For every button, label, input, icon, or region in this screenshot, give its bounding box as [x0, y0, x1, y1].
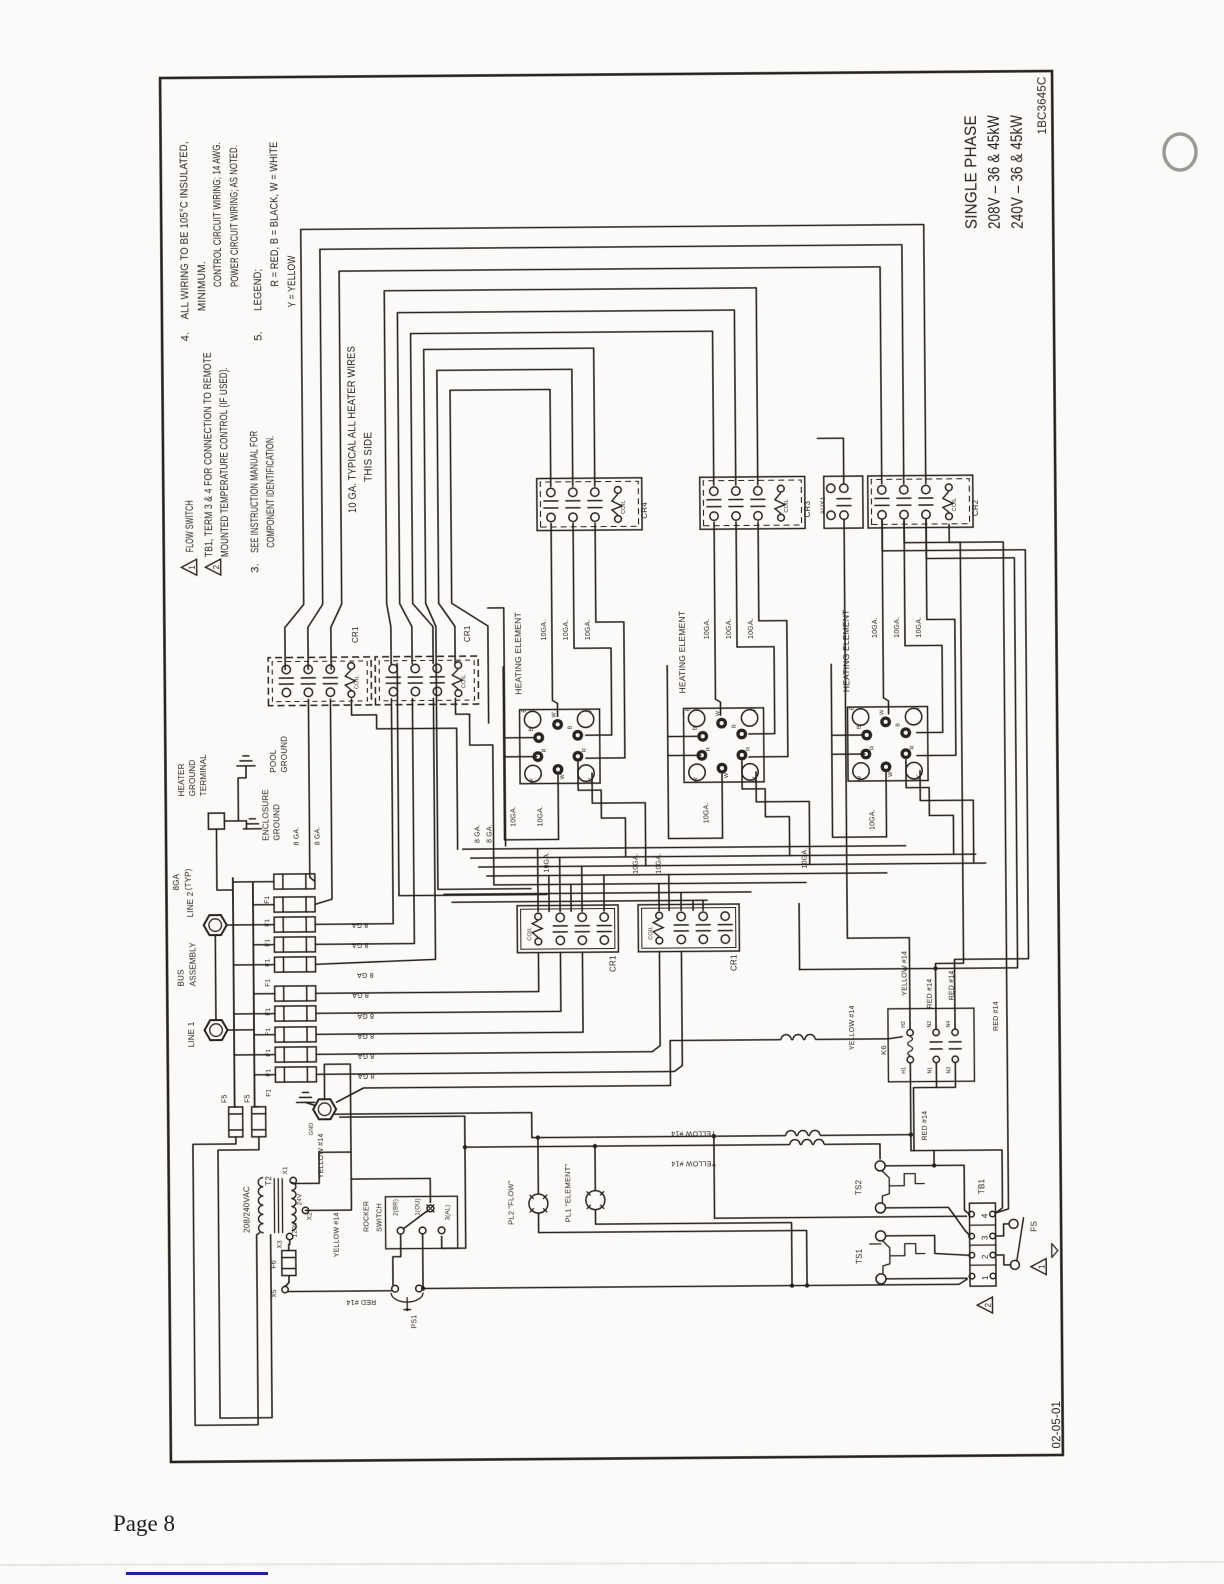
svg-text:ALL WIRING TO BE 105°C INSULAT: ALL WIRING TO BE 105°C INSULATED, — [178, 141, 191, 319]
wire — [718, 924, 732, 926]
terminal X5 — [282, 1286, 288, 1292]
TB1 divider — [970, 1264, 996, 1266]
svg-text:8 GA: 8 GA — [357, 971, 374, 978]
svg-text:W: W — [724, 772, 730, 778]
terminal X3 — [286, 1233, 292, 1239]
wire — [289, 1240, 290, 1251]
wire — [996, 1224, 1009, 1236]
wire — [282, 1256, 296, 1258]
wire — [798, 904, 801, 970]
svg-text:GROUND: GROUND — [280, 736, 289, 773]
TB1 terminal 4 right — [990, 1211, 996, 1217]
wire 10GA element return — [831, 664, 886, 837]
svg-text:8 GA: 8 GA — [352, 991, 369, 998]
wire — [305, 937, 307, 952]
wire — [283, 986, 285, 1001]
svg-text:208V – 36 & 45kW: 208V – 36 & 45kW — [985, 115, 1004, 229]
wire 10GA to element — [584, 523, 625, 758]
wire — [234, 1013, 275, 1015]
svg-text:ROCKER: ROCKER — [363, 1201, 370, 1232]
wire — [603, 875, 605, 911]
svg-text:1: 1 — [188, 565, 197, 570]
svg-text:8GA: 8GA — [172, 873, 181, 890]
svg-text:PL1 "ELEMENT": PL1 "ELEMENT" — [563, 1163, 572, 1222]
wire — [397, 663, 547, 896]
heater wire loop — [397, 310, 737, 664]
wire 10GA element return — [667, 665, 722, 838]
wire — [351, 1178, 430, 1203]
wire yellow B — [441, 1144, 881, 1248]
wire — [323, 677, 337, 679]
svg-text:R: R — [870, 746, 876, 750]
wire — [422, 1235, 424, 1287]
TB1 divider — [970, 1224, 996, 1226]
wire — [229, 1113, 243, 1115]
wire — [674, 924, 688, 926]
wire 8GA — [351, 698, 457, 850]
wire — [406, 1298, 408, 1310]
svg-text:POOL: POOL — [269, 749, 278, 772]
wire 10GA to element — [882, 521, 889, 714]
wire — [300, 1096, 312, 1098]
svg-text:PS1: PS1 — [411, 1315, 418, 1329]
wire — [996, 1255, 1011, 1265]
wire — [285, 1276, 289, 1287]
svg-text:ASSEMBLY: ASSEMBLY — [188, 942, 197, 987]
relay CR1 (coil bank B) — [638, 904, 739, 952]
svg-text:02-05-01: 02-05-01 — [1051, 1401, 1063, 1449]
svg-text:8 GA: 8 GA — [357, 1052, 374, 1059]
rocker pin 2(BR) — [397, 1227, 404, 1234]
wire — [283, 1047, 285, 1062]
wire — [882, 518, 1029, 1029]
svg-text:K6: K6 — [879, 1045, 888, 1055]
svg-text:W: W — [857, 775, 863, 781]
svg-text:CR3: CR3 — [803, 500, 812, 517]
svg-text:R: R — [916, 705, 922, 709]
wire — [544, 500, 558, 502]
svg-text:B: B — [529, 728, 535, 732]
wire — [588, 500, 602, 502]
wire 8GA — [308, 699, 314, 881]
wire — [323, 683, 337, 685]
wire — [255, 1106, 259, 1108]
svg-text:4.: 4. — [180, 332, 192, 342]
svg-text:RED #14: RED #14 — [922, 1111, 929, 1141]
wire — [282, 874, 284, 889]
svg-text:F5: F5 — [222, 1094, 229, 1103]
wire — [538, 1211, 807, 1285]
svg-text:5.: 5. — [253, 331, 265, 341]
bus wire — [463, 846, 906, 849]
wire — [253, 904, 274, 906]
wire — [668, 735, 699, 737]
wire — [674, 930, 688, 932]
svg-text:H1: H1 — [901, 1067, 907, 1074]
wire — [282, 937, 284, 952]
wire — [406, 1308, 409, 1311]
wire — [279, 683, 293, 685]
wire yellow — [336, 1037, 902, 1102]
svg-text:CR1: CR1 — [729, 954, 738, 971]
terminal LINE 1 — [204, 1020, 227, 1040]
svg-text:208/240VAC: 208/240VAC — [242, 1186, 251, 1233]
svg-text:GND: GND — [309, 1123, 315, 1136]
svg-text:B: B — [686, 707, 692, 711]
wire — [315, 952, 560, 1013]
svg-text:TS2: TS2 — [854, 1179, 863, 1195]
wire — [282, 1267, 296, 1269]
wire — [283, 1006, 285, 1021]
svg-text:AUX1: AUX1 — [820, 496, 827, 514]
wire 10GA — [920, 770, 974, 863]
wire — [214, 935, 217, 1019]
svg-text:10GA.: 10GA. — [916, 617, 923, 638]
svg-text:X5: X5 — [271, 1289, 278, 1298]
wire — [243, 755, 249, 757]
svg-text:8 GA: 8 GA — [357, 1012, 374, 1019]
svg-text:10 GA. TYPICAL ALL HEATER WIRE: 10 GA. TYPICAL ALL HEATER WIRES — [346, 346, 359, 513]
svg-text:2: 2 — [981, 1254, 990, 1259]
drawing border frame — [160, 71, 1063, 1462]
svg-text:B: B — [693, 726, 699, 730]
wire — [279, 677, 293, 679]
svg-text:MINIMUM.: MINIMUM. — [196, 261, 208, 311]
wire — [313, 699, 393, 925]
svg-text:R: R — [752, 707, 758, 711]
wire supply — [218, 1137, 272, 1418]
svg-text:W: W — [588, 777, 594, 783]
svg-text:COIL: COIL — [527, 927, 533, 941]
wire — [844, 519, 910, 1029]
wire — [875, 497, 889, 499]
svg-text:B: B — [857, 725, 863, 729]
flow switch FS — [1009, 1219, 1018, 1228]
svg-text:F1: F1 — [265, 979, 272, 987]
fuse F1 — [274, 917, 315, 932]
transformer T2 — [258, 1178, 263, 1233]
wire — [537, 849, 539, 912]
wire — [751, 498, 765, 500]
wire — [597, 925, 611, 927]
wire — [315, 953, 538, 994]
wire — [229, 1129, 243, 1131]
terminal LINE 2 — [204, 915, 227, 935]
heater wire loop — [411, 331, 716, 663]
heater wire loop — [450, 389, 553, 723]
wire — [283, 1027, 285, 1042]
wire — [283, 1067, 285, 1082]
wire — [696, 924, 710, 926]
svg-text:(TYP): (TYP) — [184, 868, 193, 890]
wire — [313, 699, 414, 945]
fuse F5 — [252, 1107, 266, 1137]
svg-text:3(AL): 3(AL) — [445, 1205, 451, 1221]
TB1 terminal 1 left — [969, 1273, 975, 1279]
wire — [488, 608, 506, 846]
wire red — [422, 1279, 967, 1288]
wire — [559, 857, 561, 911]
svg-text:COIL: COIL — [461, 674, 467, 688]
wire — [237, 765, 255, 767]
svg-text:10GA.: 10GA. — [802, 848, 809, 869]
wire — [897, 504, 911, 506]
wire — [252, 1113, 266, 1115]
FS blade — [1017, 1218, 1024, 1261]
svg-text:10GA.: 10GA. — [869, 809, 876, 830]
wire — [301, 683, 315, 685]
svg-text:N1: N1 — [927, 1067, 933, 1074]
svg-text:W: W — [552, 711, 558, 717]
wire 10GA — [756, 771, 810, 864]
svg-text:COIL: COIL — [621, 500, 627, 514]
bus bar — [253, 883, 255, 1107]
svg-text:N3: N3 — [946, 1067, 952, 1074]
wire — [282, 957, 284, 972]
svg-text:MOUNTED TEMPERATURE CONTROL (I: MOUNTED TEMPERATURE CONTROL (IF USED). — [218, 367, 231, 557]
wire 10GA — [742, 761, 790, 856]
wire — [557, 775, 560, 839]
svg-text:HEATING ELEMENT: HEATING ELEMENT — [677, 611, 688, 694]
svg-text:N4: N4 — [946, 1021, 952, 1028]
svg-text:H2: H2 — [901, 1021, 907, 1028]
fuse F1 — [274, 874, 315, 889]
K6 N2 — [933, 1029, 939, 1035]
wire — [566, 500, 580, 502]
wire — [751, 505, 765, 507]
bus wire — [444, 892, 751, 894]
wire — [949, 1041, 961, 1043]
wire — [919, 504, 933, 506]
rocker switch — [385, 1196, 457, 1249]
wire — [932, 524, 964, 1028]
svg-text:YELLOW #14: YELLOW #14 — [901, 951, 908, 996]
wire — [393, 1235, 401, 1285]
wire yellow — [340, 1116, 465, 1148]
svg-text:3.: 3. — [249, 563, 261, 573]
TB1 terminal 1 right — [990, 1273, 996, 1279]
svg-text:HEATING ELEMENT: HEATING ELEMENT — [513, 612, 524, 695]
svg-text:Y = YELLOW: Y = YELLOW — [286, 255, 298, 307]
wire — [305, 897, 307, 912]
thermostat TS2 — [875, 1161, 885, 1171]
heater wire loop — [305, 245, 905, 670]
wire — [408, 676, 422, 678]
svg-text:TS1: TS1 — [855, 1248, 864, 1264]
svg-text:FLOW SWITCH: FLOW SWITCH — [184, 500, 196, 552]
svg-text:B: B — [896, 723, 902, 727]
svg-text:10GA.: 10GA. — [703, 802, 710, 823]
wire — [430, 676, 444, 678]
relay K6 — [888, 1008, 975, 1082]
svg-text:TERMINAL: TERMINAL — [199, 754, 208, 796]
wire — [581, 866, 583, 911]
svg-text:3: 3 — [981, 1235, 990, 1240]
wire — [936, 1063, 955, 1087]
wire — [832, 753, 865, 755]
wire — [832, 734, 863, 736]
wire supply — [193, 1137, 261, 1426]
wire 10GA to element — [904, 520, 943, 732]
wire — [544, 507, 558, 509]
wire — [595, 1209, 792, 1286]
wire — [282, 897, 284, 912]
wire — [315, 952, 583, 1034]
wire 10GA to element — [736, 522, 775, 734]
wire — [910, 1063, 934, 1165]
wire — [226, 924, 233, 926]
wire — [301, 677, 315, 679]
wire — [233, 881, 274, 883]
wire — [702, 900, 704, 910]
wire — [886, 1235, 968, 1256]
wire — [277, 1179, 279, 1233]
wire — [796, 518, 1018, 970]
scan artifact line — [0, 1562, 1224, 1565]
svg-text:TB1, TERM 3 & 4 FOR CONNECTION: TB1, TERM 3 & 4 FOR CONNECTION TO REMOTE — [202, 352, 216, 557]
svg-text:CR4: CR4 — [640, 502, 649, 519]
heater ground terminal — [208, 813, 224, 829]
TB1 terminal 3 right — [990, 1233, 996, 1239]
svg-text:X3: X3 — [277, 1240, 284, 1249]
svg-text:10GA.: 10GA. — [585, 619, 592, 640]
wire — [224, 821, 246, 829]
wire — [930, 1048, 942, 1050]
blue mark — [126, 1572, 268, 1575]
svg-text:1(OU): 1(OU) — [415, 1198, 421, 1215]
wire — [216, 829, 232, 890]
wire 10GA to element — [551, 523, 558, 716]
wire — [837, 498, 851, 500]
svg-text:COIL: COIL — [648, 926, 654, 940]
svg-text:W: W — [752, 776, 758, 782]
note triangle 1 flow switch — [181, 559, 196, 575]
svg-text:1: 1 — [1037, 1264, 1046, 1269]
note triangle 2 — [205, 559, 220, 575]
svg-text:W: W — [529, 778, 535, 784]
wire 8GA — [455, 698, 493, 885]
wire — [246, 823, 258, 825]
fuse F1 — [275, 1006, 316, 1021]
svg-text:8 GA.: 8 GA. — [486, 824, 493, 843]
svg-text:R: R — [910, 745, 916, 749]
svg-text:2: 2 — [212, 564, 221, 569]
svg-text:10GA.: 10GA. — [544, 852, 551, 873]
wire — [537, 1138, 539, 1194]
svg-text:R: R — [746, 747, 752, 751]
wire — [306, 1067, 308, 1082]
wire — [234, 1054, 275, 1056]
wire 10GA — [592, 773, 646, 866]
wire — [885, 773, 888, 837]
svg-text:W: W — [693, 776, 699, 782]
wire rocker blade — [403, 1211, 426, 1228]
svg-text:B: B — [732, 724, 738, 728]
wire — [668, 754, 701, 756]
relay CR3 — [700, 476, 805, 529]
svg-text:24V: 24V — [296, 1193, 303, 1206]
wire yellow A — [335, 1110, 911, 1140]
svg-text:1: 1 — [981, 1275, 990, 1280]
TB1 terminal 4 left — [969, 1211, 975, 1217]
wire — [304, 1064, 351, 1210]
wire 10GA element return — [503, 666, 558, 839]
svg-text:LINE 2: LINE 2 — [186, 891, 195, 917]
svg-text:W: W — [888, 771, 894, 777]
pressure switch PS1 — [392, 1285, 399, 1292]
svg-text:F5: F5 — [245, 1094, 252, 1103]
svg-text:X1: X1 — [282, 1166, 289, 1175]
wire — [707, 499, 721, 501]
wire — [315, 952, 660, 1055]
wire — [273, 1179, 275, 1233]
svg-text:8 GA.: 8 GA. — [314, 826, 321, 845]
K6 H2 — [907, 1029, 913, 1035]
TB1 terminal 2 left — [969, 1252, 975, 1258]
wire — [305, 957, 307, 972]
TS1 blade — [883, 1241, 890, 1274]
wire 10GA to element — [747, 522, 788, 757]
wire — [597, 931, 611, 933]
wire 10GA — [578, 762, 626, 857]
svg-text:SWITCH: SWITCH — [376, 1203, 383, 1232]
svg-text:LINE 1: LINE 1 — [187, 1021, 196, 1047]
svg-text:YELLOW #14: YELLOW #14 — [333, 1212, 340, 1257]
rocker pin 3(AL) — [438, 1227, 445, 1234]
svg-text:RED #14: RED #14 — [993, 1001, 1000, 1031]
wire — [575, 931, 589, 933]
contactor CR1 (bank B) — [375, 656, 478, 705]
svg-text:CR2: CR2 — [971, 499, 980, 516]
fuse F1 — [275, 1047, 316, 1062]
wire — [707, 506, 721, 508]
svg-text:GROUND: GROUND — [188, 759, 197, 796]
svg-text:CR1: CR1 — [351, 626, 360, 643]
svg-text:X2: X2 — [306, 1212, 313, 1221]
wire — [553, 931, 567, 933]
svg-text:2: 2 — [984, 1302, 993, 1307]
wire — [315, 951, 682, 1074]
wire red — [913, 1063, 937, 1150]
terminal X2 — [302, 1207, 308, 1213]
svg-text:RED #14: RED #14 — [346, 1298, 376, 1305]
bus wire — [479, 863, 986, 867]
K6 N4 — [952, 1029, 958, 1035]
fuse F1 — [275, 986, 316, 1001]
flag — [1052, 1244, 1058, 1258]
wire — [305, 874, 307, 889]
fuse F1 — [274, 937, 315, 952]
svg-text:CR1: CR1 — [608, 955, 617, 972]
svg-text:RED #14: RED #14 — [927, 979, 934, 1009]
wire — [721, 774, 724, 838]
svg-text:ENCLOSURE: ENCLOSURE — [261, 789, 270, 841]
wire — [306, 1102, 315, 1105]
svg-text:R: R — [588, 708, 594, 712]
wire — [408, 682, 422, 684]
wire 8GA — [313, 699, 332, 904]
heating element 2 — [684, 708, 765, 783]
rocker common — [427, 1205, 434, 1212]
wire — [233, 924, 274, 926]
wire — [306, 986, 308, 1001]
wire — [253, 944, 274, 946]
relay CR4 — [537, 478, 642, 531]
svg-text:8 GA.: 8 GA. — [474, 824, 481, 843]
svg-text:FS: FS — [1030, 1221, 1039, 1232]
terminal GND — [313, 1099, 336, 1119]
wire — [875, 504, 889, 506]
